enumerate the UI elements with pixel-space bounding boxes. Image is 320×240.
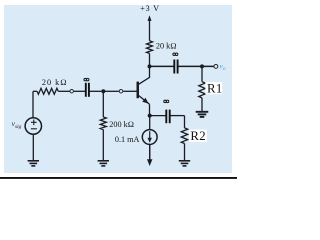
- svg-text:200 kΩ: 200 kΩ: [109, 120, 134, 129]
- svg-text:+3 V: +3 V: [140, 4, 160, 13]
- svg-text:R1: R1: [207, 82, 223, 96]
- svg-text:0.1 mA: 0.1 mA: [115, 135, 140, 144]
- svg-text:R2: R2: [190, 129, 206, 143]
- svg-text:20 kΩ: 20 kΩ: [156, 41, 177, 50]
- svg-text:20 kΩ: 20 kΩ: [42, 78, 68, 87]
